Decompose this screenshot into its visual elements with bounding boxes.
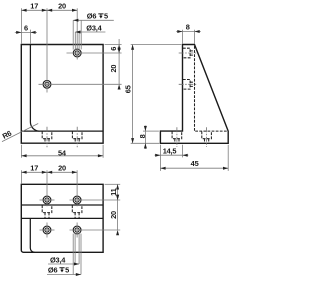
dim 45 (side bottom) xyxy=(160,145,228,171)
svg-text:5: 5 xyxy=(65,266,69,275)
wall front face line xyxy=(21,204,103,206)
hole H1 front (counterbored, top right) xyxy=(73,49,81,57)
svg-text:17: 17 xyxy=(30,164,38,173)
dim 20 (top view) xyxy=(47,171,52,174)
svg-text:Ø6: Ø6 xyxy=(87,12,97,21)
dim 20 (top view right) xyxy=(116,195,119,200)
base hole B1 centerline xyxy=(176,127,178,147)
hidden base hole slot S2 (front view) xyxy=(72,131,82,143)
dim 20 (front top) xyxy=(47,9,52,12)
svg-text:Ø3,4: Ø3,4 xyxy=(50,255,66,264)
dim 54 (front bottom) xyxy=(21,145,103,158)
svg-text:8: 8 xyxy=(138,134,147,138)
hole T4 (row2 right) xyxy=(73,226,81,234)
svg-text:R6: R6 xyxy=(1,129,13,141)
side view outline (L-profile with gusset) xyxy=(160,45,228,144)
hole T1 (row1 left) xyxy=(43,196,51,204)
top view outline with R6 corner xyxy=(21,184,103,252)
hidden base hole slot S1 (front view) xyxy=(42,131,52,143)
svg-text:20: 20 xyxy=(58,164,66,173)
hidden wall hole W1 (top view) xyxy=(42,205,52,218)
svg-text:45: 45 xyxy=(191,159,199,168)
dim 20 (front right, hole to hole) xyxy=(118,48,121,53)
svg-text:14,5: 14,5 xyxy=(163,146,177,155)
slot S2 centerline xyxy=(76,127,78,147)
dim 6 (front right, hole to top) xyxy=(105,39,122,84)
hidden wall back face xyxy=(194,46,196,131)
label leader lines (top view, from T4 down) xyxy=(47,233,81,275)
hole H2 centerlines xyxy=(39,8,122,92)
svg-text:5: 5 xyxy=(104,12,108,21)
dim 8 (side left, base thickness) xyxy=(143,126,159,149)
svg-text:Ø3,4: Ø3,4 xyxy=(86,23,102,32)
wall hole W1 centerline xyxy=(179,52,197,54)
hole T3 centerlines xyxy=(40,223,55,238)
dim 11 (top view right) xyxy=(105,184,121,230)
hidden wall hole W1 (side view) xyxy=(183,48,194,58)
svg-text:20: 20 xyxy=(58,2,66,11)
hidden base hole B1 (side view) xyxy=(172,131,182,143)
hole H2 front (counterbored, middle left) xyxy=(43,80,51,88)
hole H1 centerlines xyxy=(67,8,122,59)
label Ø6 depth 5 (top view) xyxy=(48,266,69,275)
label leader lines for counterbore (front view, to H1) xyxy=(73,20,114,51)
front view base top edge xyxy=(21,130,103,132)
hole T4 centerlines xyxy=(70,223,121,238)
hole T2 centerlines xyxy=(70,170,121,206)
slot S1 centerline xyxy=(46,127,48,147)
dim 8 (side top, wall thickness) xyxy=(176,30,201,44)
svg-text:65: 65 xyxy=(124,85,133,93)
svg-text:54: 54 xyxy=(58,148,67,157)
label Ø6 depth 5 (front view) xyxy=(87,12,108,21)
svg-text:6: 6 xyxy=(24,23,28,32)
hidden wall hole W2 (side view) xyxy=(183,80,194,90)
hole T1 centerlines xyxy=(40,170,55,206)
wall hole W2 centerline xyxy=(179,83,197,85)
wall back face line xyxy=(21,217,103,219)
hidden wall hole W2 (top view) xyxy=(72,205,82,218)
front view outline xyxy=(21,45,103,144)
front view wall left inner edge with R6 fillet xyxy=(30,45,39,132)
svg-text:8: 8 xyxy=(186,23,190,32)
dim 14,5 (side bottom) xyxy=(155,145,189,171)
svg-text:17: 17 xyxy=(30,2,38,11)
svg-text:Ø6: Ø6 xyxy=(48,266,58,275)
dim 17 (front top) xyxy=(21,8,77,43)
svg-text:20: 20 xyxy=(109,211,118,219)
svg-text:20: 20 xyxy=(109,65,118,73)
svg-text:11: 11 xyxy=(109,188,118,196)
hidden base top edge under gusset xyxy=(195,130,227,132)
base hole B2 centerline xyxy=(206,127,208,147)
R6 leader and label xyxy=(2,124,38,142)
hole T3 (row2 left) xyxy=(43,226,51,234)
dim 65 (side left, overall height) xyxy=(131,45,182,144)
hole T2 (row1 right) xyxy=(73,196,81,204)
dim 6 (front left, wall offset) xyxy=(15,30,37,44)
hidden base hole B2 (side view) xyxy=(202,131,212,143)
dim 17 (top view) xyxy=(21,170,77,183)
svg-text:6: 6 xyxy=(109,47,118,51)
top view inner edge with fillet (rounded gusset corner) xyxy=(30,218,34,252)
